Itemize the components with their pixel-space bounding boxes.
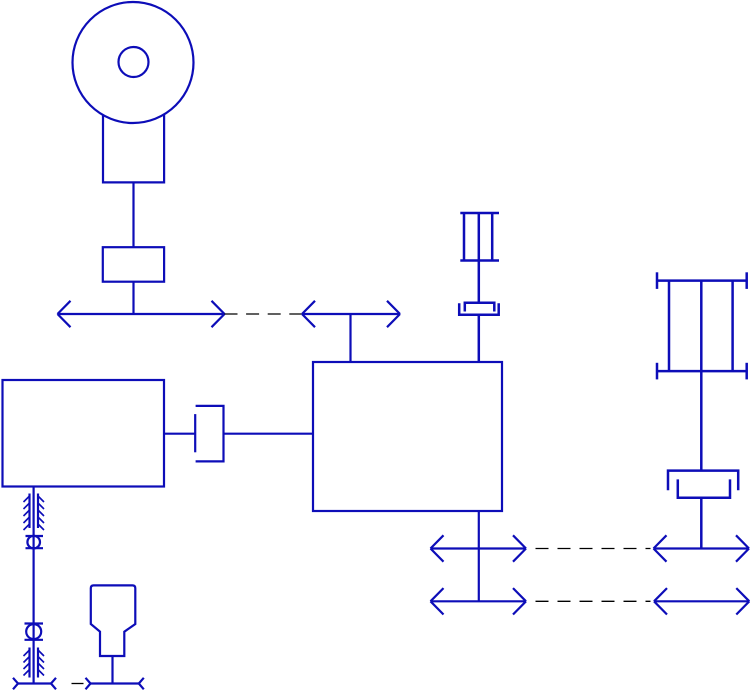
bearing 2 bbox=[25, 624, 44, 640]
wire from arrow B down to gearbox bbox=[349, 314, 351, 362]
dashed link C bbox=[536, 548, 651, 550]
clutch C2 (small, above gearbox) bbox=[459, 303, 499, 362]
machine frame / table (left box) bbox=[3, 380, 165, 487]
slide arrow B (double-headed, middle) bbox=[302, 301, 400, 327]
bearing 1 bbox=[26, 536, 44, 549]
frame hatching (lower pair) bbox=[24, 648, 45, 678]
dashed link E bbox=[72, 683, 84, 685]
shaft from motor to brake bbox=[132, 182, 134, 247]
stem from tool body to arrow E bbox=[111, 656, 113, 684]
wire from clutch C1 to gearbox bbox=[224, 433, 314, 435]
shaft from brake to slide arrow bbox=[132, 282, 134, 314]
dashed link A-B bbox=[225, 313, 302, 315]
hub of pulley wheel B1 bbox=[119, 47, 149, 77]
tailstock / tool body (bottle shape) bbox=[91, 585, 136, 656]
wire from gearbox bottom through arrow C to arrow D bbox=[478, 511, 480, 601]
slide arrow D right segment bbox=[654, 588, 749, 614]
frame hatching (upper pair) bbox=[24, 494, 45, 531]
slide arrow D left segment bbox=[431, 588, 527, 614]
clutch C3 (large, right side) bbox=[668, 471, 738, 549]
brake block Y1 bbox=[103, 247, 164, 282]
slide arrow E segment 1 (bottom left, inward heads) bbox=[13, 678, 56, 690]
slide arrow E segment 2 (inward heads) bbox=[86, 678, 144, 690]
gearbox housing bbox=[313, 362, 502, 511]
slide arrow C left segment bbox=[431, 535, 527, 561]
slide arrow A (double-headed, left) bbox=[58, 301, 225, 327]
wire from table to clutch C1 bbox=[164, 433, 195, 435]
pulley P3 (large, right side) bbox=[657, 272, 747, 470]
motor body M1 bbox=[103, 115, 164, 183]
lead screw / vertical shaft below table bbox=[32, 488, 34, 684]
slide arrow C right segment bbox=[654, 535, 750, 561]
pulley P2 (small, above gearbox) bbox=[460, 213, 499, 303]
pulley wheel B1 (large drive wheel) bbox=[73, 2, 194, 123]
dashed link D bbox=[536, 600, 651, 602]
clutch C1 (left, between table and gearbox) bbox=[195, 406, 223, 462]
